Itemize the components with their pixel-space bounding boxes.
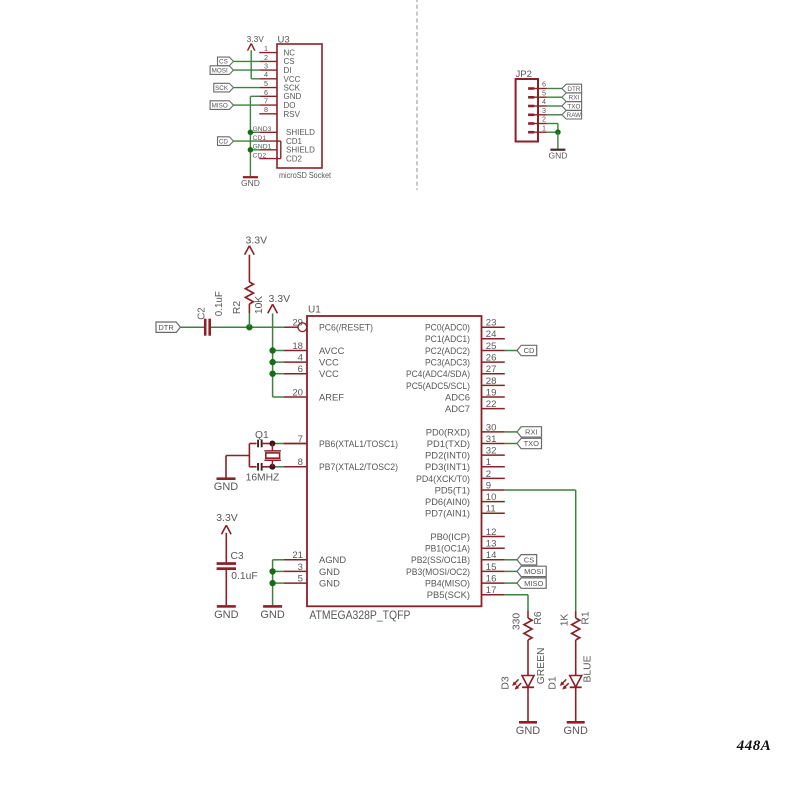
svg-text:CS: CS (219, 59, 228, 66)
svg-text:D3: D3 (501, 676, 512, 689)
svg-text:3: 3 (298, 562, 303, 573)
svg-text:MISO: MISO (212, 102, 228, 109)
svg-text:32: 32 (486, 446, 497, 457)
svg-text:9: 9 (486, 480, 491, 491)
svg-text:ADC7: ADC7 (445, 403, 470, 414)
svg-text:CD1: CD1 (286, 137, 303, 146)
svg-text:JP2: JP2 (516, 69, 532, 80)
svg-text:D1: D1 (548, 676, 559, 689)
svg-text:C3: C3 (231, 551, 244, 562)
svg-text:GND: GND (214, 481, 239, 493)
svg-text:0.1uF: 0.1uF (214, 291, 225, 316)
svg-text:10: 10 (486, 492, 497, 503)
svg-text:PC6(/RESET): PC6(/RESET) (319, 322, 373, 333)
svg-text:PD2(INT0): PD2(INT0) (425, 450, 470, 461)
svg-text:PC1(ADC1): PC1(ADC1) (425, 333, 470, 344)
svg-text:3: 3 (542, 106, 546, 115)
svg-text:2: 2 (486, 469, 491, 480)
svg-text:17: 17 (486, 585, 497, 596)
svg-text:22: 22 (486, 399, 497, 410)
svg-text:25: 25 (486, 341, 497, 352)
svg-text:4: 4 (264, 70, 268, 79)
svg-text:6: 6 (298, 364, 303, 375)
svg-text:GREEN: GREEN (536, 648, 547, 685)
svg-text:11: 11 (486, 504, 496, 515)
svg-text:GND: GND (563, 725, 588, 737)
svg-text:CS: CS (284, 57, 295, 66)
svg-text:TXO: TXO (524, 439, 540, 448)
svg-text:R2: R2 (232, 301, 243, 314)
svg-text:16: 16 (486, 574, 497, 585)
svg-text:3.3V: 3.3V (216, 512, 238, 524)
svg-text:PD0(RXD): PD0(RXD) (426, 426, 470, 437)
svg-text:3: 3 (264, 62, 268, 71)
svg-text:5: 5 (298, 574, 303, 585)
svg-text:SHIELD: SHIELD (286, 146, 315, 155)
svg-text:31: 31 (486, 434, 497, 445)
svg-text:27: 27 (486, 364, 497, 375)
svg-text:PB3(MOSI/OC2): PB3(MOSI/OC2) (406, 566, 470, 577)
svg-text:CS: CS (524, 556, 534, 565)
svg-text:PD4(XCK/T0): PD4(XCK/T0) (416, 473, 470, 484)
svg-text:8: 8 (264, 105, 268, 114)
svg-text:R6: R6 (533, 611, 544, 624)
svg-text:1: 1 (542, 123, 546, 132)
svg-text:23: 23 (486, 318, 497, 329)
svg-text:DO: DO (284, 101, 296, 110)
svg-text:24: 24 (486, 329, 497, 340)
svg-text:microSD Socket: microSD Socket (279, 170, 332, 180)
svg-text:2: 2 (542, 115, 546, 124)
svg-text:1: 1 (264, 44, 268, 53)
svg-text:13: 13 (486, 539, 497, 550)
svg-text:CD: CD (524, 346, 535, 355)
svg-text:PC5(ADC5/SCL): PC5(ADC5/SCL) (406, 380, 470, 391)
svg-text:SCK: SCK (215, 85, 229, 92)
svg-text:PB2(SS/OC1B): PB2(SS/OC1B) (411, 554, 470, 565)
svg-text:PD5(T1): PD5(T1) (435, 484, 470, 495)
svg-text:BLUE: BLUE (583, 655, 594, 682)
svg-text:CD2: CD2 (253, 152, 267, 159)
svg-text:GND: GND (319, 578, 340, 589)
svg-text:448A: 448A (736, 738, 772, 754)
svg-text:GND: GND (319, 566, 340, 577)
svg-text:GND: GND (260, 609, 285, 621)
svg-text:26: 26 (486, 353, 497, 364)
svg-text:DTR: DTR (158, 323, 174, 332)
svg-text:ADC6: ADC6 (445, 391, 470, 402)
svg-text:VCC: VCC (319, 368, 339, 379)
svg-text:3.3V: 3.3V (245, 235, 267, 247)
svg-text:PD6(AIN0): PD6(AIN0) (425, 496, 470, 507)
svg-text:10K: 10K (254, 296, 265, 314)
svg-text:AREF: AREF (319, 391, 344, 402)
svg-text:PD7(AIN1): PD7(AIN1) (425, 508, 470, 519)
svg-text:6: 6 (542, 80, 546, 89)
svg-text:1: 1 (486, 457, 491, 468)
svg-text:U1: U1 (308, 305, 321, 316)
svg-text:DI: DI (284, 66, 292, 75)
svg-text:330: 330 (512, 613, 523, 630)
svg-text:5: 5 (264, 79, 268, 88)
svg-text:VCC: VCC (284, 75, 301, 84)
svg-text:PB5(SCK): PB5(SCK) (427, 589, 470, 600)
svg-text:PC4(ADC4/SDA): PC4(ADC4/SDA) (406, 368, 470, 379)
svg-text:C2: C2 (197, 307, 208, 320)
svg-text:PD3(INT1): PD3(INT1) (425, 461, 470, 472)
svg-text:14: 14 (486, 550, 497, 561)
svg-text:19: 19 (486, 387, 497, 398)
svg-text:AVCC: AVCC (319, 345, 345, 356)
svg-text:MISO: MISO (524, 579, 543, 588)
svg-text:18: 18 (292, 341, 303, 352)
svg-text:12: 12 (486, 527, 497, 538)
svg-text:30: 30 (486, 422, 497, 433)
svg-text:PD1(TXD): PD1(TXD) (427, 438, 470, 449)
svg-text:PB1(OC1A): PB1(OC1A) (425, 543, 470, 554)
svg-text:16MHZ: 16MHZ (246, 473, 280, 484)
svg-text:7: 7 (264, 97, 268, 106)
svg-text:RSV: RSV (284, 110, 301, 119)
svg-text:CD2: CD2 (286, 155, 303, 164)
svg-text:PB4(MISO): PB4(MISO) (425, 578, 470, 589)
svg-text:MOSI: MOSI (524, 567, 543, 576)
svg-text:GND: GND (284, 92, 302, 101)
svg-text:PC0(ADC0): PC0(ADC0) (425, 322, 470, 333)
svg-text:ATMEGA328P_TQFP: ATMEGA328P_TQFP (309, 608, 410, 622)
svg-text:PB0(ICP): PB0(ICP) (430, 531, 470, 542)
svg-text:3.3V: 3.3V (268, 293, 290, 305)
svg-text:15: 15 (486, 562, 497, 573)
svg-text:6: 6 (264, 88, 268, 97)
svg-text:TXO: TXO (567, 103, 580, 110)
svg-text:RAW: RAW (567, 112, 582, 119)
svg-text:GND: GND (241, 178, 260, 188)
svg-text:NC: NC (284, 49, 296, 58)
svg-text:3.3V: 3.3V (247, 34, 265, 44)
svg-text:Q1: Q1 (255, 430, 269, 441)
svg-text:SCK: SCK (284, 84, 301, 93)
svg-text:GND: GND (548, 150, 567, 160)
svg-text:GND: GND (516, 725, 541, 737)
svg-text:CD: CD (219, 138, 229, 145)
svg-text:U3: U3 (278, 35, 290, 46)
svg-text:PB7(XTAL2/TOSC2): PB7(XTAL2/TOSC2) (319, 461, 398, 472)
svg-text:RXI: RXI (569, 95, 580, 102)
svg-text:4: 4 (542, 97, 546, 106)
svg-text:AGND: AGND (319, 554, 346, 565)
svg-text:28: 28 (486, 376, 497, 387)
svg-text:DTR: DTR (567, 86, 580, 93)
svg-text:4: 4 (298, 353, 304, 364)
svg-text:2: 2 (264, 53, 268, 62)
svg-text:21: 21 (292, 550, 303, 561)
svg-text:20: 20 (292, 387, 303, 398)
svg-text:PB6(XTAL1/TOSC1): PB6(XTAL1/TOSC1) (319, 438, 398, 449)
svg-text:5: 5 (542, 89, 546, 98)
svg-text:PC3(ADC3): PC3(ADC3) (425, 357, 470, 368)
svg-text:R1: R1 (581, 611, 592, 624)
svg-text:VCC: VCC (319, 357, 339, 368)
svg-text:SHIELD: SHIELD (286, 128, 315, 137)
svg-text:PC2(ADC2): PC2(ADC2) (425, 345, 470, 356)
svg-text:0.1uF: 0.1uF (231, 571, 257, 582)
svg-text:29: 29 (292, 318, 303, 329)
svg-text:1K: 1K (560, 614, 571, 627)
svg-text:MOSI: MOSI (212, 67, 228, 74)
svg-text:RXI: RXI (525, 428, 538, 437)
svg-text:GND: GND (214, 609, 239, 621)
